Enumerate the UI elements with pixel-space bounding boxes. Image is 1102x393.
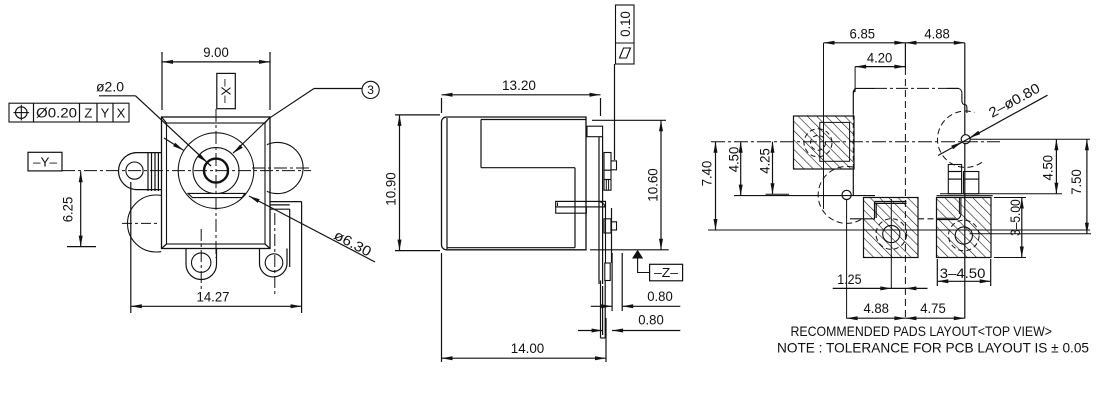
left lug bend line 1 — [147, 152, 149, 191]
top outline jack phantom — [853, 88, 962, 93]
pads center vertical line — [904, 43, 906, 319]
dim 14.00 right extension — [605, 318, 607, 362]
jack outline right edge with step — [962, 93, 967, 113]
bottom-left circle centerline — [122, 222, 159, 224]
svg-text:6.85: 6.85 — [850, 26, 876, 42]
leader dia 2.0 — [99, 96, 211, 166]
side body inner top line — [481, 119, 586, 121]
bottom right lug hole — [265, 254, 283, 272]
svg-text:3–4.50: 3–4.50 — [940, 265, 986, 281]
leader position tolerance — [164, 138, 184, 150]
label 2-dia0.80 — [986, 80, 1043, 121]
right circle centerline — [252, 167, 309, 169]
right side circle behind body — [252, 142, 303, 193]
right arm outer vertical — [301, 202, 303, 313]
extension mid pad center vertical — [890, 199, 892, 288]
dim 3-5.00 line — [1020, 198, 1024, 258]
flatness tolerance frame — [616, 5, 635, 64]
datum -Y- box — [28, 152, 62, 171]
svg-text:4.50: 4.50 — [726, 147, 742, 173]
extension 4.20 left — [854, 67, 856, 92]
terminal rect above right pad — [948, 165, 961, 194]
extension 7.50 bottom — [970, 233, 1092, 235]
dim 4.50 left label — [726, 147, 742, 173]
dim 13.20 right extension — [600, 98, 602, 116]
leader dia 6.30 — [249, 196, 375, 262]
svg-text:7.50: 7.50 — [1068, 169, 1084, 195]
svg-text:4.75: 4.75 — [920, 300, 946, 316]
side body outline — [442, 117, 587, 250]
svg-text:4.50: 4.50 — [1039, 155, 1055, 181]
dim 10.60 top extension — [592, 119, 666, 121]
dim 13.20 line — [442, 93, 601, 97]
svg-text:6.25: 6.25 — [60, 197, 76, 223]
svg-text:0.10: 0.10 — [618, 11, 633, 37]
svg-text:10.60: 10.60 — [645, 168, 661, 202]
dim 0.80 lower extensions — [602, 286, 604, 335]
svg-text:4.88: 4.88 — [863, 300, 889, 316]
dim 13.20 left extension — [441, 98, 443, 113]
dim 3-5.00 extensions — [994, 198, 1026, 258]
connector body inner square front view — [167, 123, 266, 244]
dim 14.27 label — [197, 288, 230, 304]
pads centerline horizontal — [711, 141, 1000, 143]
dim 4.75 bottom label — [920, 300, 946, 316]
svg-text:7.40: 7.40 — [699, 161, 715, 187]
left lug bend line 2 — [151, 152, 153, 191]
chamfer corner bottom-right — [265, 244, 270, 249]
contact spring flat bar — [188, 193, 245, 197]
label dia 6.30 — [331, 227, 374, 260]
dim 1.25 line — [833, 286, 928, 290]
pad bottom-middle inner circle — [883, 225, 900, 242]
flange top tab — [587, 126, 603, 137]
dim 4.50 right line — [1054, 139, 1058, 194]
pcb surface line — [590, 249, 669, 251]
barrel inner circle — [193, 148, 239, 194]
extension 7.40 bottom long — [708, 229, 1090, 231]
dim 0.80 upper label — [647, 288, 673, 304]
svg-text:1.25: 1.25 — [837, 271, 861, 287]
left lug bend line 4 — [157, 152, 159, 191]
pad bottom-middle dashed circle — [876, 219, 907, 250]
svg-text:Ø0.20: Ø0.20 — [36, 106, 77, 121]
bottom-left circle behind body — [128, 195, 185, 252]
pad bottom-right phantom pin — [937, 198, 961, 220]
pad top-left dashed circle inner — [811, 135, 826, 150]
datum -Z- box — [650, 264, 683, 281]
bottom left lug centerline — [200, 229, 202, 292]
dim 3-4.50 label — [940, 265, 986, 281]
hole A dia 0.80 — [961, 135, 970, 144]
dim 0.80 lower label — [638, 312, 664, 328]
dim 4.20 line — [855, 65, 905, 69]
svg-text:–X–: –X– — [219, 79, 234, 104]
phantom dashes between pads — [918, 218, 937, 220]
svg-text:Z: Z — [84, 106, 92, 121]
dim 9.00 line — [162, 60, 270, 64]
dim 14.00 left extension — [441, 253, 443, 362]
dim 4.25 label — [757, 148, 773, 174]
side body inner right vertical — [574, 168, 576, 248]
dim 4.88 4.75 bottom line — [847, 316, 965, 320]
svg-text:4.88: 4.88 — [924, 26, 950, 42]
dim 3-4.50 extensions — [937, 259, 990, 286]
svg-text:0.80: 0.80 — [638, 312, 664, 328]
dim 7.40 label — [699, 161, 715, 187]
dim 4.50 right extension — [0, 0, 1, 1]
upper pin — [611, 161, 617, 170]
dim 13.20 label — [502, 77, 536, 93]
svg-text:–Z–: –Z– — [654, 265, 679, 280]
center pin circle dia 2.0 — [204, 159, 228, 183]
bottom left lug hole — [192, 253, 211, 272]
svg-text:4.20: 4.20 — [867, 50, 893, 66]
svg-text:ø2.0: ø2.0 — [96, 78, 124, 94]
datum -X- box — [217, 73, 236, 108]
dim 10.90 label — [383, 172, 399, 206]
dim 6.25 line — [79, 171, 83, 246]
svg-text:Y: Y — [101, 106, 110, 121]
svg-text:3: 3 — [367, 83, 374, 97]
leader balloon 3 — [233, 89, 362, 154]
barrel opening circle dia 6.30 — [178, 133, 254, 209]
pad top-left hatched — [794, 116, 855, 169]
dim 10.60 label — [645, 168, 661, 202]
svg-text:4.25: 4.25 — [757, 148, 773, 174]
dim 0.80 upper line — [591, 304, 681, 308]
dim 9.00 left extension — [161, 52, 163, 110]
svg-text:3–5.00: 3–5.00 — [1007, 199, 1023, 236]
dim 10.90 bottom extension — [395, 250, 440, 252]
dim 10.90 top extension — [395, 114, 440, 116]
pads upper edge line right — [940, 193, 1062, 195]
dim 4.25 extension — [766, 193, 790, 195]
lower pin housing — [604, 219, 611, 233]
dim 6.25 label — [60, 197, 76, 223]
wire vertical centerline left view — [215, 109, 217, 258]
right arm bottom edge — [270, 208, 290, 210]
right arm inner line — [270, 204, 290, 206]
svg-text:14.00: 14.00 — [511, 340, 545, 356]
hole B dia 0.80 — [842, 190, 851, 199]
pad bottom-middle hatched — [864, 198, 919, 258]
bottom right lug centerline — [274, 213, 276, 296]
pad bottom-middle phantom pin — [850, 202, 907, 220]
dim 14.00 line — [442, 356, 607, 360]
side body inner step horizontal — [481, 167, 575, 169]
dim 4.88 top label — [924, 26, 950, 42]
dim 4.88 bottom label — [863, 300, 889, 316]
dim 3-4.50 line — [937, 279, 990, 283]
chamfer corner bottom-left — [162, 244, 167, 249]
terminal rect right — [964, 172, 979, 194]
dim 4.88 top line — [905, 41, 964, 45]
svg-text:14.27: 14.27 — [197, 288, 230, 304]
dim 7.50 line — [1085, 139, 1089, 234]
left lug hole — [126, 162, 143, 179]
hole A centerline right — [971, 138, 1091, 140]
dim 9.00 right extension — [269, 52, 271, 110]
pad top-left phantom lug — [820, 122, 850, 161]
dim 6.85 label — [850, 26, 876, 42]
flange plate front line — [598, 137, 600, 284]
dim 10.60 line — [659, 120, 663, 250]
chamfer corner top-right — [265, 117, 270, 123]
note tolerance — [777, 340, 1089, 356]
side body inner left line — [446, 118, 448, 249]
solder pin lower — [601, 281, 606, 339]
dim 6.25 extension bottom — [67, 246, 96, 248]
svg-text:0.80: 0.80 — [647, 288, 673, 304]
svg-text:RECOMMENDED PADS LAYOUT<TOP VI: RECOMMENDED PADS LAYOUT<TOP VIEW> — [791, 323, 1053, 339]
hole B dashed circle — [818, 166, 861, 223]
dim 4.50 right label — [1039, 155, 1055, 181]
dim 9.00 label — [203, 44, 229, 60]
side body inner bottom line — [447, 247, 575, 249]
dim 14.00 label — [511, 340, 545, 356]
balloon 3 — [362, 81, 379, 98]
dim 0.80 upper extensions — [612, 253, 622, 311]
connector body outer square front view — [162, 117, 271, 249]
leader 2-dia0.80 — [938, 95, 1048, 155]
dim 4.25 line — [771, 142, 775, 195]
position tolerance frame — [9, 103, 129, 122]
dim 3-5.00 label — [1007, 199, 1023, 236]
jack outline left edge — [852, 93, 854, 195]
pad bottom-right dashed circle — [949, 220, 980, 251]
pad bottom-right hatched — [937, 198, 992, 258]
svg-text:13.20: 13.20 — [502, 77, 536, 93]
pad top-left dashed circle outer — [804, 129, 832, 157]
wire horizontal centerline left view — [62, 170, 311, 172]
upper pin housing — [604, 153, 611, 191]
flatness leader — [614, 64, 616, 160]
dim 1.25 label — [837, 271, 861, 287]
dim 7.50 label — [1068, 169, 1084, 195]
dim 7.40 line — [714, 142, 718, 230]
dim 4.20 label — [867, 50, 893, 66]
dim 14.27 line — [131, 304, 302, 308]
label dia 2.0 — [96, 78, 124, 94]
chamfer corner top-left — [162, 117, 167, 123]
solder pin kink box — [605, 263, 610, 281]
left lug bend line 3 — [154, 152, 156, 191]
svg-text:10.90: 10.90 — [383, 172, 399, 206]
dim 0.80 lower line — [578, 329, 680, 333]
center terminal bar — [556, 201, 606, 207]
hole A dashed circle — [937, 111, 981, 167]
jack bottom edge right — [937, 195, 993, 197]
dim 4.50 left line — [739, 142, 743, 196]
svg-text:–Y–: –Y– — [33, 154, 58, 169]
dim 14.27 left extension — [130, 182, 132, 313]
extension pad1 center vertical — [823, 43, 825, 209]
bottom left solder lug — [186, 249, 217, 280]
svg-text:X: X — [117, 106, 126, 121]
left mounting lug outline — [119, 153, 162, 190]
right arm inner vertical — [289, 209, 291, 267]
svg-text:9.00: 9.00 — [203, 44, 229, 60]
center terminal lower step — [556, 207, 587, 213]
datum -Z- leader — [638, 259, 650, 273]
datum -Z- triangle — [632, 250, 643, 259]
extension hole A vertical — [964, 43, 966, 319]
note pads layout — [791, 323, 1053, 339]
dim 10.90 line — [398, 115, 402, 251]
svg-text:NOTE : TOLERANCE FOR PCB LAYOU: NOTE : TOLERANCE FOR PCB LAYOUT IS ± 0.0… — [777, 340, 1089, 356]
pad bottom-right inner circle — [955, 227, 972, 244]
right arm top edge — [270, 201, 302, 203]
lower pin — [611, 222, 617, 230]
bottom right solder lug — [260, 249, 288, 277]
dim 6.85 line — [824, 41, 906, 45]
jack bottom edge left — [734, 195, 875, 197]
flange plate back line — [602, 137, 604, 284]
center pin bend — [598, 201, 612, 263]
extension hole B vertical — [846, 200, 848, 319]
side body inner step vertical — [480, 120, 482, 168]
